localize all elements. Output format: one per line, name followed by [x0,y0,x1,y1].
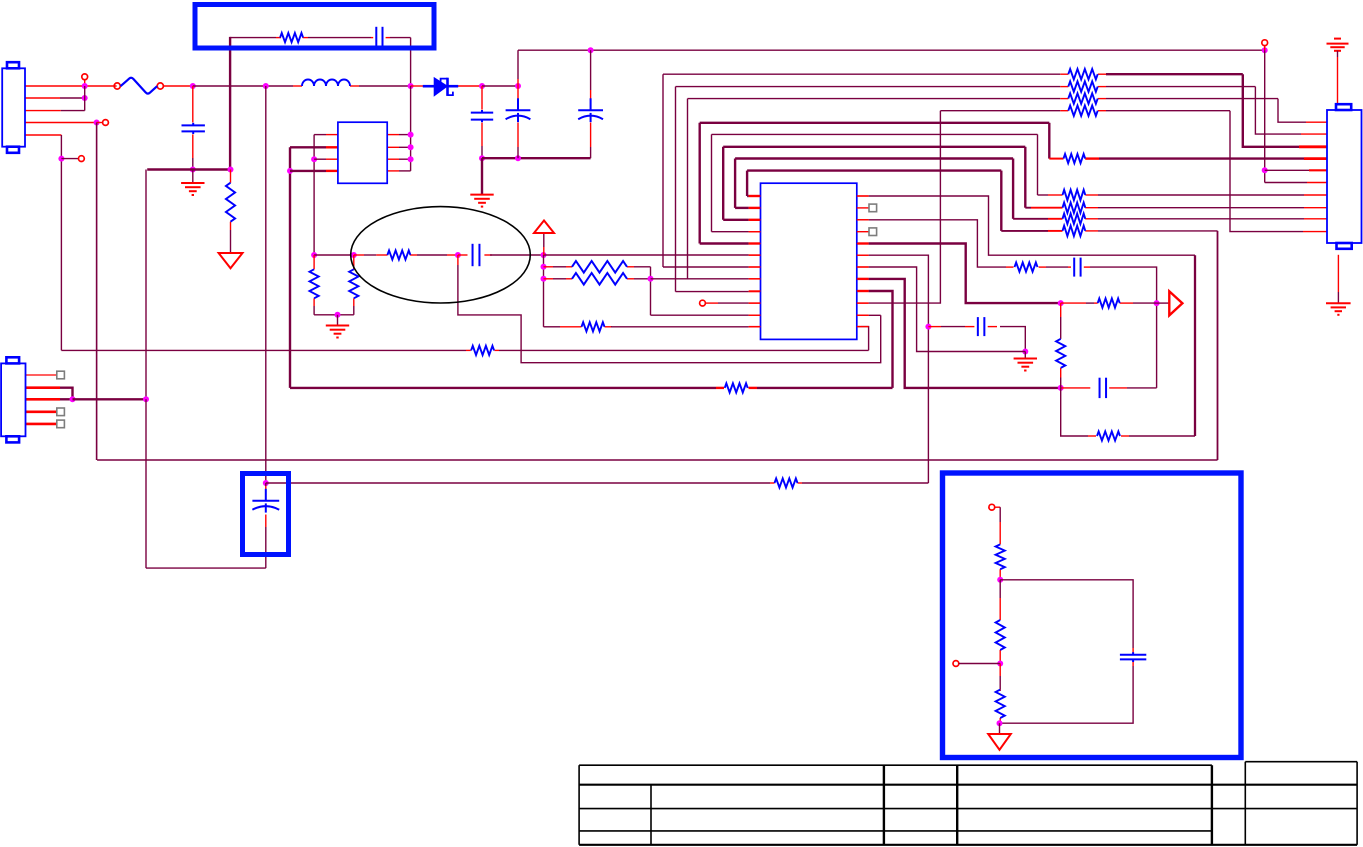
annotation box top [195,5,434,49]
capacitor C9 fb [1100,378,1107,398]
wire fb row left thick [290,387,724,389]
wire snubber row [230,37,373,39]
wire bundle L9 vertical [675,87,677,292]
junction dot J2 tie [70,396,76,402]
wire R4 top lead [353,255,355,269]
wire C5 top lead [590,50,592,110]
wire feedback drop [458,255,881,363]
junction dot pair bottom [541,276,547,282]
wire U1 pin6 right [387,158,410,160]
wire J1 pin1 to fuse [25,85,117,87]
junction dot pair right [648,276,654,282]
wire bbox cap bottom [1000,662,1134,724]
wire L12 drop [544,326,553,328]
wire R5 left lead [354,254,388,256]
junction dot C3 bottom [479,155,485,161]
wire cap row right [928,326,974,328]
wire U2 R10 net [857,111,941,303]
wire GND1 stub [192,170,194,184]
wire C6 right lead [484,254,543,256]
wire Rbank1 left lead y74.2 [1060,73,1068,75]
wire Rbank2 row3 left [1013,159,1062,219]
resistor Rbank1-2 [1068,81,1097,91]
wire bundle L7 row to pin [663,266,761,268]
junction dot C1 gnd rail [190,167,196,173]
wire U2 R12 net [857,327,869,351]
buffer U3 [1169,291,1182,315]
capacitor C7 [978,317,985,336]
resistor R9 row350 [471,346,494,355]
wire anode red [411,85,424,87]
capacitor C4 polarized [506,98,531,122]
junction dot J2 rail [143,396,149,402]
no-connect U2 pin R4 [869,228,877,236]
capacitor C3 [471,110,493,122]
wire box cap bottom [265,515,267,569]
power flag PWR1 down [219,253,243,268]
resistor R1 snubber [280,33,303,42]
capacitor C6 ellipse [473,244,480,266]
wire pin4 vertical down [96,123,98,461]
wire long row350 right [494,349,868,351]
inductor L1 [302,80,350,86]
wire bundle row y134.4 [712,133,1038,135]
junction dot U1 pin8 [408,132,414,138]
wire bundle L8 vertical [687,99,689,280]
wire R5 to C6 [410,254,458,256]
wire bbox chain mid1 [999,569,1001,580]
wire U2 R9 net thick [857,291,893,388]
junction dot pair top [541,264,547,270]
wire bundle row y86.6 [676,86,1061,88]
wire fb cap leads [1061,387,1157,389]
wire U2 R5 net thick [857,244,1061,304]
resistor R14 amp [1098,299,1120,308]
ground GND2 [470,195,493,207]
resistor R3 divider [310,269,319,298]
wire bbox chain low [999,664,1001,692]
junction dot fb mid [1154,300,1160,306]
highlight ellipse [351,207,531,303]
wire U1 pin3 left [314,158,338,160]
wire caps gnd row thick [482,157,591,159]
node TP4 terminal top right [1262,40,1268,50]
junction dot main line bulkcap [263,83,269,89]
wire to J3 pin5 [1265,169,1327,171]
resistor R15 vertical [1056,339,1065,368]
capacitor C2 snubber [376,27,382,49]
ground GND1 [181,183,204,195]
wire bundle row y146.8 [723,146,1025,148]
wire C3 node to C4 node [482,85,518,87]
resistor Rbank2-4 [1063,226,1086,236]
junction dot main line C1 [190,83,196,89]
resistor R7 [572,273,627,285]
op-amp U2 main IC body [761,183,857,339]
resistor R10 row388 [725,383,748,392]
wire C4 bottom lead [517,123,519,159]
junction dot feedback tap [455,252,461,258]
wire snubber left vertical [229,37,231,171]
wire Rbank1 right lead row4 [1098,110,1230,112]
wire R15 vert leads [1060,303,1062,388]
wire bundle row y122.8 [700,122,1050,124]
connector J2 body [1,357,25,442]
junction dot top row right [1262,47,1268,53]
no-connect U2 pin R2 [869,204,877,212]
wire Rbank2 row3 right [1085,218,1327,220]
wire long row350 [61,349,470,351]
junction dot bbox tap1 [997,577,1003,583]
wire U2 pin R11 entry [857,314,881,316]
capacitor C10 bbox [1120,652,1146,662]
wire R8 leads [552,326,582,328]
resistor R2 [226,183,235,222]
resistor R16 [1097,431,1120,440]
wire long row460 [97,459,1217,461]
wire L1 to diode node [350,85,411,87]
junction dot diode anode node [408,83,414,89]
wire bundle L3 row to pin [723,219,760,221]
connector J3 body [1327,104,1362,249]
resistor R17 bbox [996,544,1005,569]
junction dot U1 pin3 [311,156,317,162]
wire pair to U2 pin L8 [651,278,761,280]
node TP2 terminal right of pin4 [97,120,109,126]
resistor Rbank2-2 [1063,203,1086,213]
wire R16 right lead [1121,435,1195,437]
wire bundle L5 row to pin [700,242,761,244]
wire bulkcap vertical [265,86,267,483]
wire bundle L1 row to pin [747,195,760,197]
wire U1 pins2-4 vertical thick [289,147,291,388]
wire bbox chain mid2 [999,580,1001,620]
wire C4 node up to top row [517,50,519,86]
wire cap row to gnd [988,327,1026,352]
junction dot amp in [1058,300,1064,306]
wire Rbank1 left lead y98.6 [1060,98,1068,100]
wire divider gnd row [314,314,354,316]
wire U1 pin1 left [314,134,338,136]
resistor Rbank1-3 [1068,93,1097,103]
junction dot vcc node [541,252,547,258]
wire U2 R6 net [857,255,929,483]
wire J2 pin5 nc [26,423,57,426]
wire bundle L4 vertical [711,134,713,231]
wire top row 50 [518,49,1265,51]
wire row460 vert left [96,123,98,461]
wire bundle row y98.6 [688,98,1061,100]
wire pins1-3 vertical tie [84,86,86,111]
junction dot C4 bottom [515,155,521,161]
wire C1 top lead [192,86,194,122]
wire row111 from x940 [940,110,1068,112]
wire bbox chain top [999,507,1001,544]
wire Rbank2 row2 right [1085,207,1327,209]
junction dot fb bottom [1058,385,1064,391]
wire C3 top lead [481,86,483,110]
wire row4 drop to J3 pin10 [1230,111,1327,232]
capacitor C1 [182,123,205,134]
wire GND4 stub [1024,352,1026,359]
junction dot divider right [351,252,357,258]
wire bus to L1 [293,85,302,87]
wire Rbank2 row1 right [1085,194,1327,196]
junction dot divider top [311,252,317,258]
annotation box cap [243,474,289,555]
wire Rbank1 right lead row2 [1098,86,1256,88]
wire bundle L9 row to pin [676,291,761,293]
connector J1 body [2,62,25,153]
wire divider row [314,254,354,256]
wire U2 R3 net [857,220,1014,267]
wire Rbank2 row2 left [1025,147,1062,208]
wire U1 pin7 right [387,146,410,148]
wire R13 left lead [1049,123,1063,159]
wire pair vertical left [543,255,545,327]
resistor R19 bbox [996,690,1005,718]
wire J1 pin4 [25,122,97,124]
junction dot bulkcap top [263,480,269,486]
wire snubber cap to right vertical [386,37,411,39]
wire bundle L2 vertical [734,159,736,208]
wire bbox terminal1 [989,504,1000,510]
wire bundle L7 vertical [662,74,664,267]
wire Rbank1 right lead row1 thick [1098,73,1243,75]
ground GND6 [1014,359,1037,371]
wire R13 right lead thick [1085,157,1327,159]
wire U1 pin2 left thick [290,146,338,148]
wire row4 drop to long row460 [1217,231,1219,460]
diode D1 schottky [423,78,458,96]
wire R7 right lead [627,278,651,280]
resistor R12 rc [1015,263,1038,272]
wire amp row res leads [1061,302,1157,304]
junction dot bbox tap2 [997,661,1003,667]
wire gnd rail drop left [145,170,147,400]
resistor Rbank1-1 [1068,69,1097,79]
junction dot U1 pin4 [287,168,293,174]
wire GND5 stub [337,315,339,326]
earth ground GND3 top right [1327,39,1349,105]
resistor R6 [572,261,627,273]
wire U1 right vertical [410,86,412,171]
junction dot pin4 [94,120,100,126]
junction dot divider gnd [335,312,341,318]
wire fb row left thick b [749,387,893,389]
power flag PWR3 gnd bbox [988,734,1011,750]
wire rail down [145,399,147,568]
wire J2 pin1 nc [26,374,57,376]
wire C6 left lead [458,254,468,256]
wire right terminal vertical [1264,50,1266,182]
wire C3 bottom lead [481,123,483,159]
annotation box divider [943,473,1242,758]
resistor R13 mid [1064,154,1086,163]
wire R7 left lead [544,278,573,280]
power flag A vertical [543,233,545,255]
wire R3 bottom lead [313,298,315,315]
wire R16 branch [1061,388,1096,436]
wire R3 top lead [313,255,315,269]
wire U2 R7 net [857,267,1026,352]
resistor Rbank1-4 [1068,106,1097,116]
junction dot C3 node [479,83,485,89]
op-amp U1 regulator body [338,122,387,183]
wire rail bottom row [146,567,266,569]
junction dot C5 top [588,47,594,53]
wire J1 pin2 [25,97,85,99]
junction dot gnd4 node [1022,349,1028,355]
wire bundle row y74.2 [663,73,1060,75]
wire bundle L5 vertical [699,123,701,244]
title block table [579,762,1357,845]
wire vcc node to U2 pin L6 [544,254,761,256]
wire row1 drop to J3 pin3 [1243,74,1327,147]
junction dot J3 pin5 tap [1262,167,1268,173]
wire bundle L4 row to pin [712,231,761,233]
wire J2 pin3 [26,398,73,401]
wire Rbank2 row1 left [1038,134,1063,195]
wire U1 pins1-3 vertical [313,135,315,255]
wire pair to U2 pin L11 [651,314,761,316]
capacitor C8 [1074,258,1080,277]
fuse F1 [114,78,163,94]
wire J2 pin2 [26,388,73,400]
wire bbox gnd stub [999,723,1001,734]
power flag PWR2 up [534,221,554,234]
wire Rbank2 row4 left [1001,171,1062,231]
ground GND5 [326,326,349,338]
resistor R11 row483 [775,478,798,487]
wire J1 pin5 [25,134,61,136]
wire bbox cap branch [1000,580,1133,653]
junction dot pin2 [82,95,88,101]
junction dot R6 cap tap [925,324,931,330]
junction dot bbox gnd [997,720,1003,726]
node TP5 terminal U2 pin L10 [700,300,761,306]
wire to J3 pin6 [1265,182,1327,184]
wire bbox terminal2 [953,661,1000,667]
wire J1 pin3 [25,110,85,112]
wire U2 R8 net thick [857,279,1061,388]
wire cap row483 right [798,482,929,484]
wire cap row483 [266,482,775,484]
wire R6 left lead [544,266,573,268]
wire J2 row thick [73,398,147,400]
wire main line C1 to bus [193,85,293,87]
wire bundle row y170.6 [747,169,1001,171]
wire R2 bottom lead [230,222,232,253]
wire cathode red [458,85,482,87]
wire C1 bottom lead [192,134,194,169]
no-connect J2 pin5 [57,420,65,428]
wire bbox chain last [999,718,1001,723]
capacitor C5 polarized [578,98,603,122]
wire bundle L2 row to pin [735,207,760,209]
wire row2 drop to J3 pin2 [1255,87,1327,135]
no-connect J2 pin4 [57,408,65,416]
wire bundle row y158.5 [735,157,1013,159]
wire snubber right vertical [410,38,412,86]
junction dot test stub [58,156,64,162]
wire U1 pin5 right [387,170,410,172]
junction dot C4 node [515,83,521,89]
resistor Rbank2-3 [1063,214,1086,224]
wire U1 pin8 right [387,134,410,136]
wire pair vertical right [650,267,652,315]
wire U2 R1 net [857,196,1195,255]
wire fuse to C1 node [164,85,193,87]
resistor R8 [582,322,605,331]
resistor R5 ellipse [387,250,410,259]
wire R6 right lead [627,266,651,268]
wire Rbank2 row4 right [1085,230,1217,232]
junction dot snubber gnd rail [228,167,234,173]
wire GND2 stub thick [481,158,483,194]
wire C5 bottom lead [590,123,592,159]
node TP1 terminal above pin1 [82,74,88,86]
wire U1 pin4 left thick [290,170,338,172]
junction dot U1 pin6 [408,156,414,162]
wire R1 net down right [1194,255,1196,436]
junction dot pin1 [82,83,88,89]
wire bundle L3 vertical [722,147,724,220]
U2 pin stubs [749,196,869,327]
ground GND7 below J3 [1326,255,1351,315]
capacitor C11 boxed polarized [252,489,279,513]
no-connect J2 pin1 [57,371,65,379]
wire R4 bottom lead [353,298,355,315]
wire pin5 vertical down [60,135,62,350]
wire bundle L1 vertical [746,171,748,196]
wire row3 drop to J3 pin1 [1278,99,1327,123]
wire box cap top [265,483,267,501]
wire Rbank1 right lead row3 [1098,98,1278,100]
wire RC row right [1084,267,1157,388]
wire bbox chain mid3 [999,650,1001,664]
node TP3 terminal stub [61,156,84,162]
wire R2 top lead [230,170,232,183]
junction dot U1 pin7 [408,144,414,150]
resistor Rbank2-1 [1063,190,1086,200]
wire amp in to buffer [1157,302,1170,304]
wire C4 top lead [517,86,519,110]
resistor R4 divider [349,269,358,298]
wire R8 to U2 pin L12 [605,326,761,328]
resistor R18 bbox [996,620,1005,650]
wire RC row mid [1039,266,1071,268]
wire gnd rail thick [147,168,231,170]
wire Rbank1 left lead y86.6 [1060,86,1068,88]
wire J2 pin4 nc [26,410,57,413]
